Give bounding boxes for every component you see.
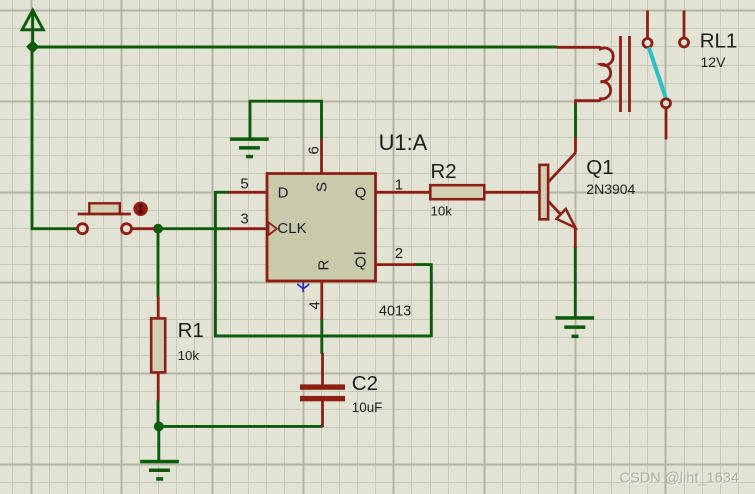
svg-text:4013: 4013 (379, 304, 411, 320)
svg-text:1: 1 (395, 177, 403, 194)
svg-text:R2: R2 (431, 160, 457, 183)
svg-text:6: 6 (306, 146, 323, 154)
svg-text:CLK: CLK (277, 220, 306, 237)
svg-text:C2: C2 (352, 372, 378, 395)
svg-text:Q1: Q1 (586, 156, 613, 179)
svg-text:Q: Q (355, 254, 367, 271)
svg-text:R1: R1 (178, 319, 204, 342)
svg-text:S: S (314, 182, 331, 192)
svg-text:D: D (278, 185, 289, 202)
svg-text:R: R (316, 260, 333, 271)
svg-text:10k: 10k (178, 348, 200, 363)
svg-text:5: 5 (240, 175, 248, 192)
svg-text:10uF: 10uF (352, 400, 383, 415)
svg-text:2N3904: 2N3904 (586, 181, 635, 197)
svg-text:2: 2 (395, 245, 403, 262)
svg-text:4: 4 (307, 301, 324, 309)
svg-text:RL1: RL1 (700, 30, 738, 53)
svg-text:10k: 10k (431, 204, 453, 219)
svg-text:CSDN @liht_1634: CSDN @liht_1634 (620, 471, 739, 487)
svg-text:3: 3 (240, 211, 248, 228)
svg-text:U1:A: U1:A (379, 130, 428, 155)
svg-text:Q: Q (355, 185, 367, 202)
svg-text:12V: 12V (701, 54, 727, 70)
